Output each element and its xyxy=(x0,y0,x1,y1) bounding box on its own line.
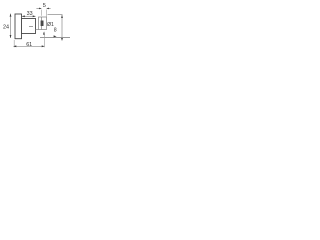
dimension 61 line xyxy=(14,45,45,47)
dimension 24 top arrow xyxy=(10,14,12,17)
dimension 5 left arrow xyxy=(36,7,41,9)
front plate (left tall rectangle of sensor side view) xyxy=(15,14,22,39)
svg-text:5: 5 xyxy=(43,3,46,9)
dimension 5 right arrow xyxy=(47,7,51,9)
extension line for 61 right xyxy=(43,32,45,48)
dimension 33 line xyxy=(22,15,36,17)
vertical dimension bottom arrow xyxy=(61,38,63,41)
svg-text:61: 61 xyxy=(26,42,32,48)
up arrow on extension xyxy=(43,32,45,35)
main body rectangle xyxy=(22,19,36,34)
extension line right of 5 xyxy=(46,10,48,18)
link line body to connector xyxy=(36,29,39,31)
leader arrow right xyxy=(54,35,57,37)
inner dash on body (label line) xyxy=(29,26,33,28)
extension line for 61 left xyxy=(13,40,15,47)
connector thread divider xyxy=(41,17,43,30)
long baseline at right xyxy=(40,37,70,39)
extension line left of 5 xyxy=(41,10,43,16)
dimension 61 left arrow xyxy=(13,45,16,47)
dimension 24 bottom arrow xyxy=(10,35,12,38)
svg-text:8: 8 xyxy=(54,28,57,34)
dimension 61 right arrow xyxy=(42,45,45,47)
dimension 33 left arrow xyxy=(22,15,25,17)
dimension 24 line xyxy=(10,14,12,38)
svg-text:24: 24 xyxy=(3,25,9,31)
connector thread hatch blob xyxy=(41,21,44,27)
top extension line right xyxy=(48,14,63,16)
dimension 33 right arrow xyxy=(33,15,36,17)
vertical dimension top arrow xyxy=(61,15,63,18)
connector stub rectangle xyxy=(39,17,47,30)
vertical dimension line right xyxy=(61,15,63,38)
